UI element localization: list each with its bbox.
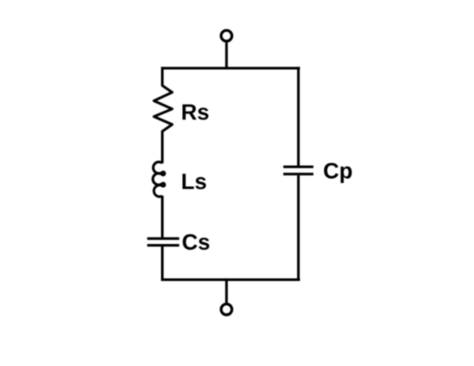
label Rs: [182, 104, 208, 119]
wire right lower: [297, 175, 300, 281]
terminal bottom: [221, 304, 232, 315]
capacitor Cs: [147, 237, 179, 240]
label Cp: [324, 163, 352, 183]
wire left mid2: [161, 196, 164, 238]
terminal top: [221, 30, 232, 41]
resistor Rs: [154, 86, 172, 132]
capacitor Cp: [283, 166, 313, 169]
wire top stub: [225, 43, 228, 70]
wire top horizontal: [161, 67, 300, 70]
wire right upper: [297, 67, 300, 166]
wire left mid1: [161, 131, 164, 164]
label Cs: [183, 234, 210, 250]
wire left lower: [161, 246, 164, 281]
inductor Ls: [153, 162, 165, 197]
wire left upper: [161, 67, 164, 86]
wire bottom stub: [225, 278, 228, 303]
wire bottom horizontal: [161, 278, 300, 281]
label Ls: [182, 174, 206, 189]
